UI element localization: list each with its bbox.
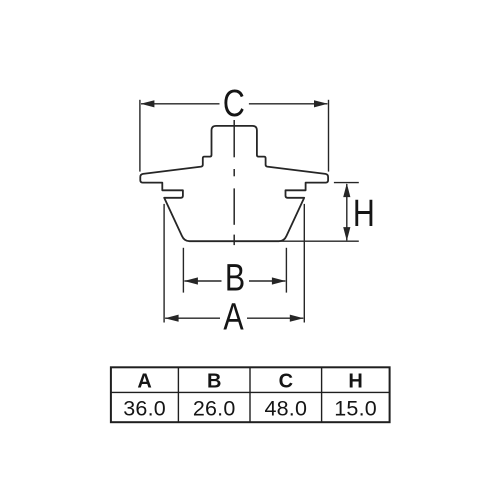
svg-text:H: H xyxy=(353,193,375,235)
svg-text:C: C xyxy=(223,83,245,125)
dimension A extension line left xyxy=(163,204,165,323)
dimension C extension line left xyxy=(139,100,141,172)
svg-text:48.0: 48.0 xyxy=(264,397,307,421)
svg-text:B: B xyxy=(225,257,245,299)
dimension H line xyxy=(346,184,348,240)
svg-text:H: H xyxy=(348,371,362,393)
dimension C line xyxy=(141,103,327,105)
svg-text:B: B xyxy=(207,371,221,393)
dimension A extension line right xyxy=(303,204,305,323)
svg-text:A: A xyxy=(137,371,151,393)
svg-text:A: A xyxy=(223,297,243,339)
dimension table frame xyxy=(111,367,390,422)
dimension H top extension line xyxy=(334,182,359,184)
dimension H bottom extension line xyxy=(280,240,359,242)
svg-text:36.0: 36.0 xyxy=(123,397,166,421)
dimension C arrowheads xyxy=(141,100,328,107)
dimension B line xyxy=(184,280,285,282)
dimension B extension line right xyxy=(285,248,287,293)
svg-text:C: C xyxy=(279,371,293,393)
center line (vertical dash-dot axis) xyxy=(233,120,235,245)
dimension A arrowheads xyxy=(165,315,304,322)
dimension B arrowheads xyxy=(184,277,286,284)
dimension A line xyxy=(165,317,303,319)
dimension H arrowheads xyxy=(343,183,350,241)
dimension B extension line left xyxy=(182,248,184,293)
part outline (stopper cross-section silhouette) xyxy=(140,126,328,241)
dimension C extension line right xyxy=(328,100,330,172)
svg-text:15.0: 15.0 xyxy=(334,397,377,421)
svg-text:26.0: 26.0 xyxy=(193,397,236,421)
